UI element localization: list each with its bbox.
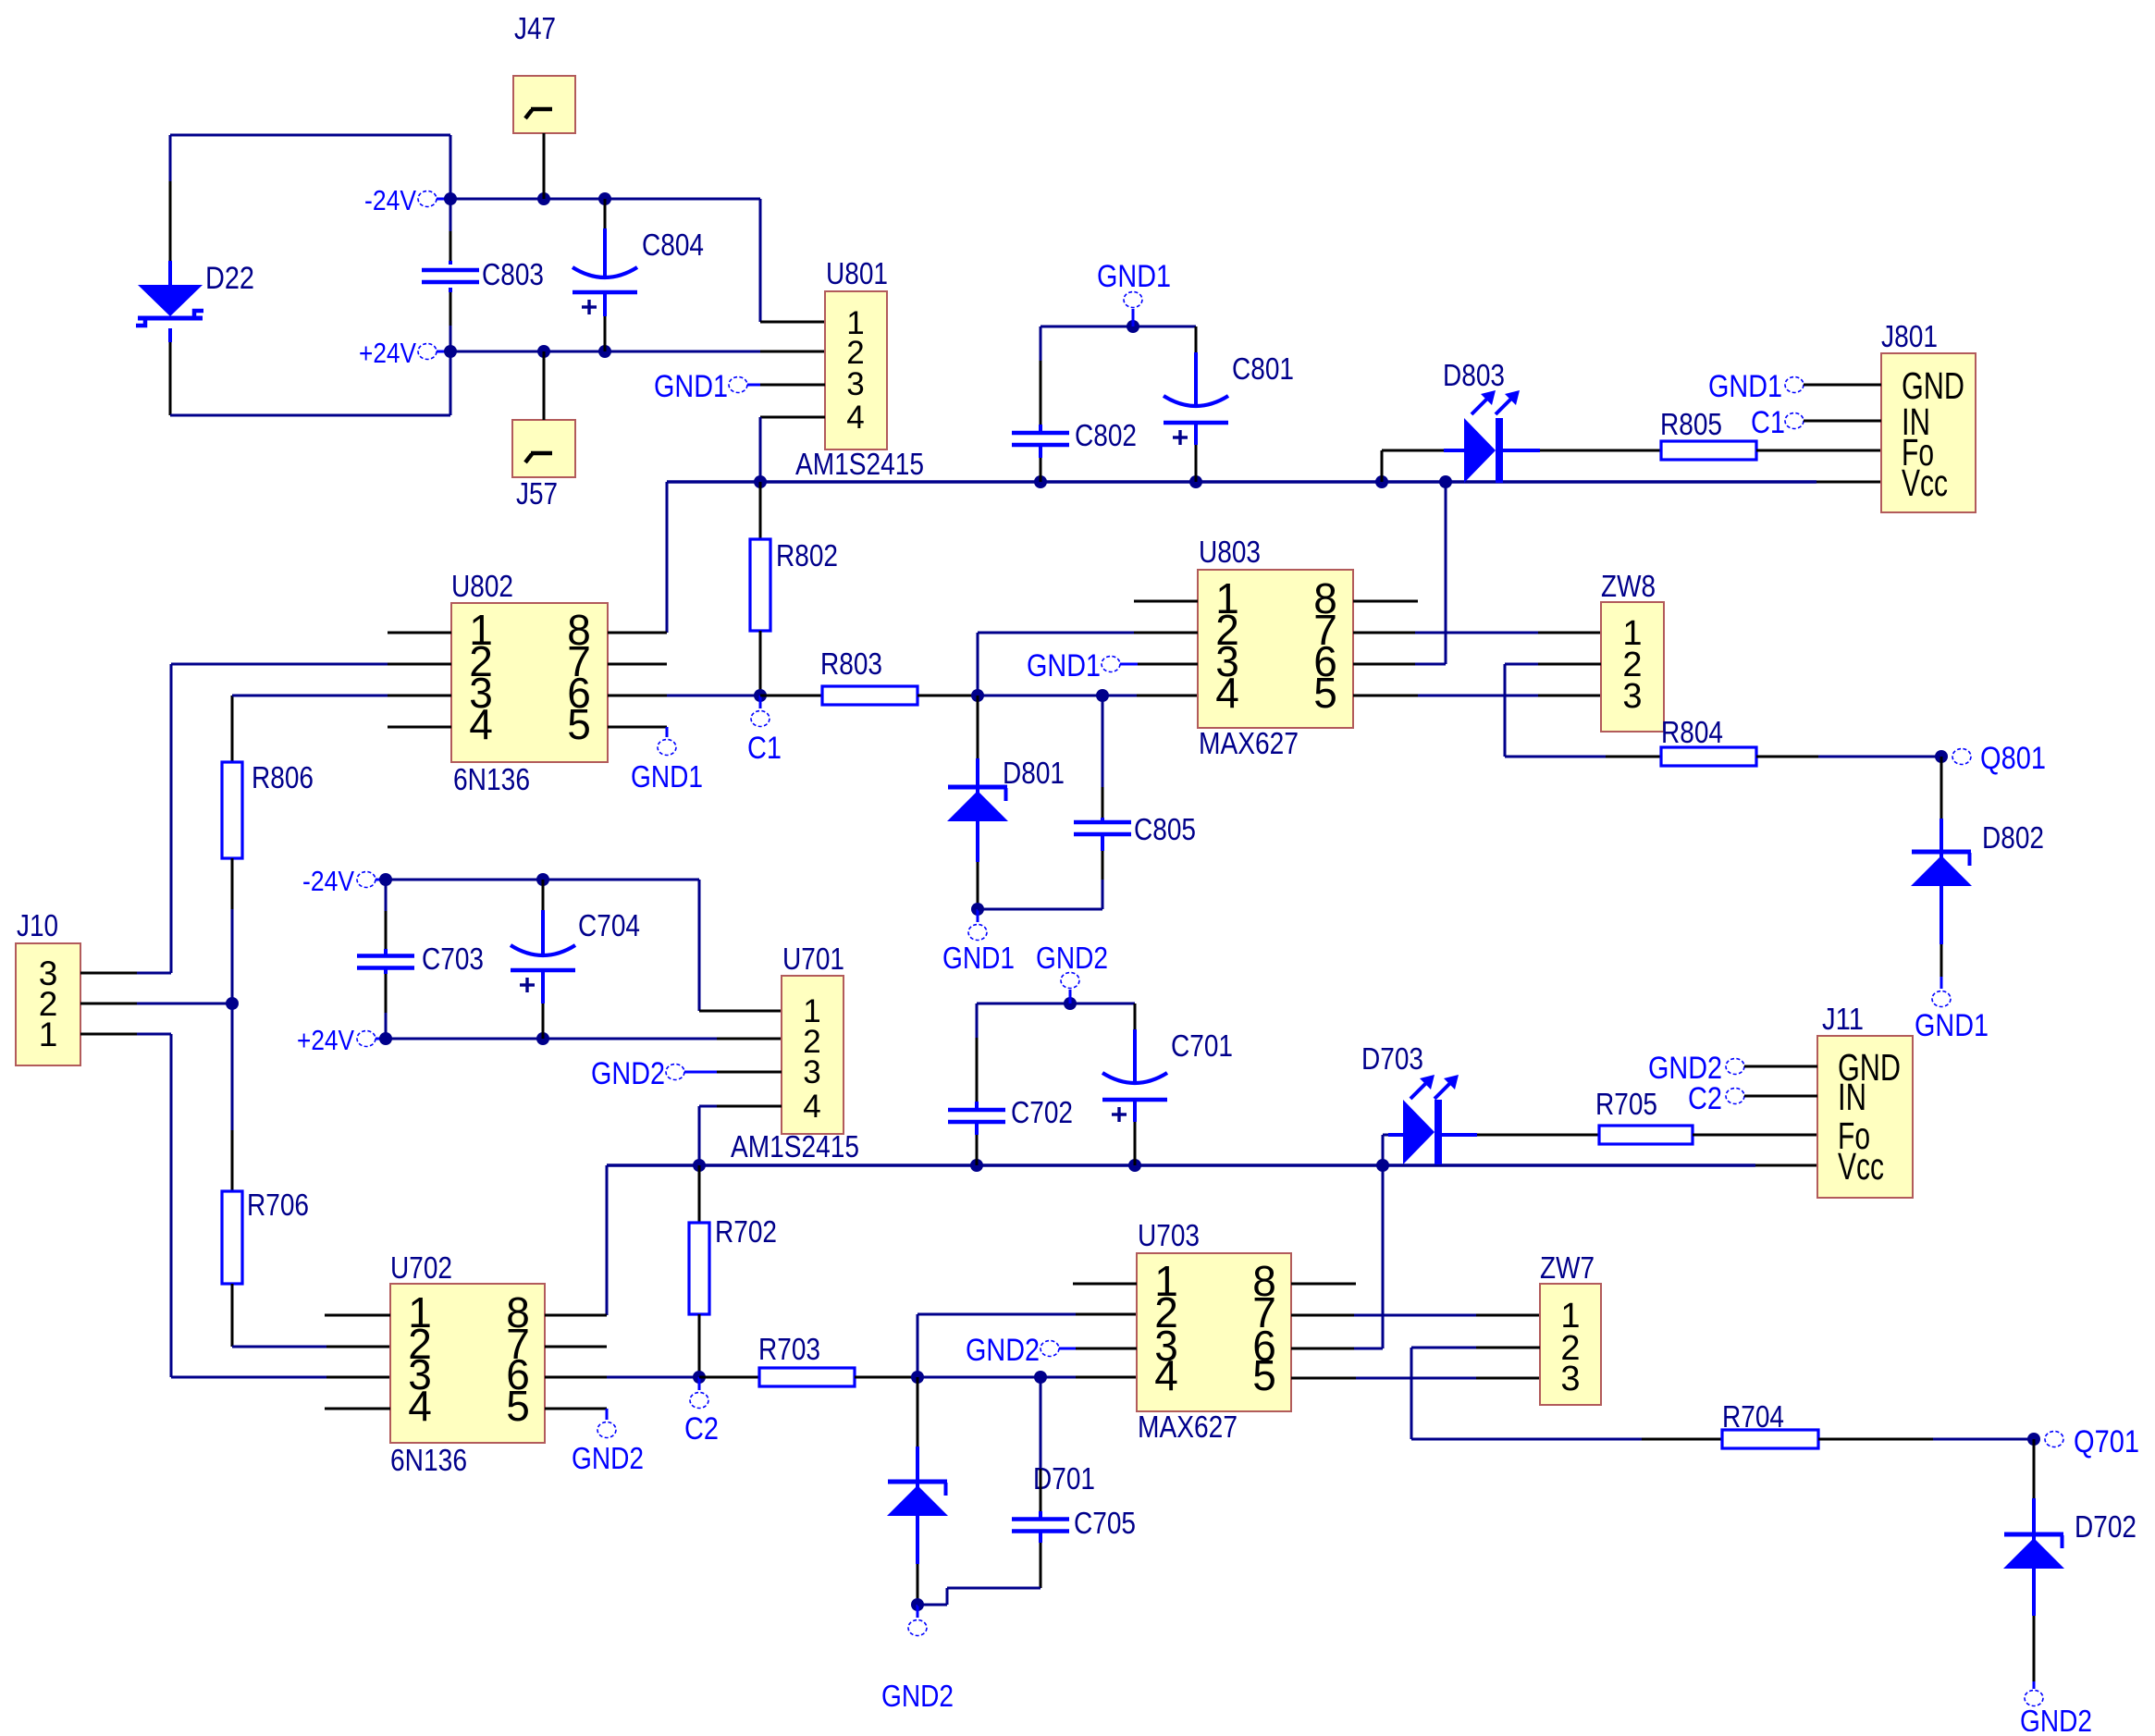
svg-text:U801: U801 [826,256,888,290]
svg-text:GND1: GND1 [1708,369,1782,404]
svg-text:U802: U802 [451,569,513,603]
svg-text:C2: C2 [1688,1081,1722,1116]
svg-text:C2: C2 [684,1411,719,1447]
svg-text:D702: D702 [2075,1509,2137,1544]
svg-text:Vcc: Vcc [1838,1145,1884,1188]
svg-text:ZW8: ZW8 [1601,569,1656,603]
svg-text:1: 1 [39,1016,58,1053]
svg-text:J11: J11 [1822,1002,1864,1036]
svg-text:R702: R702 [715,1214,777,1249]
svg-text:Q801: Q801 [1980,741,2046,776]
svg-text:4: 4 [1215,669,1239,717]
svg-text:R706: R706 [247,1188,309,1222]
svg-text:C801: C801 [1232,351,1294,386]
svg-text:D803: D803 [1443,358,1505,392]
svg-text:R803: R803 [820,646,882,681]
svg-text:6N136: 6N136 [453,762,530,796]
svg-text:D801: D801 [1003,756,1065,790]
svg-text:5: 5 [1313,669,1337,717]
svg-text:GND2: GND2 [881,1679,954,1713]
svg-text:GND1: GND1 [1027,648,1101,683]
svg-text:IN: IN [1838,1076,1866,1118]
svg-text:R804: R804 [1661,715,1723,749]
svg-text:3: 3 [1560,1360,1580,1398]
svg-text:C701: C701 [1171,1028,1233,1063]
svg-text:AM1S2415: AM1S2415 [731,1129,859,1163]
svg-text:4: 4 [846,400,864,436]
svg-text:5: 5 [567,700,591,748]
svg-text:R806: R806 [252,760,314,794]
svg-text:C803: C803 [482,257,544,291]
svg-text:U703: U703 [1138,1218,1200,1252]
svg-text:R705: R705 [1595,1087,1657,1121]
svg-text:GND2: GND2 [1036,941,1108,975]
svg-text:R703: R703 [758,1332,820,1366]
svg-text:U701: U701 [782,942,844,976]
svg-text:GND2: GND2 [591,1056,665,1091]
svg-text:4: 4 [1154,1351,1178,1399]
svg-text:AM1S2415: AM1S2415 [795,447,924,481]
svg-text:C703: C703 [422,942,484,976]
svg-text:C1: C1 [747,731,782,766]
svg-text:C702: C702 [1011,1095,1073,1129]
svg-text:C1: C1 [1751,405,1785,440]
svg-text:J47: J47 [514,11,556,45]
svg-text:4: 4 [408,1382,432,1430]
svg-text:3: 3 [803,1054,820,1090]
svg-text:D701: D701 [1033,1461,1095,1496]
svg-text:Q701: Q701 [2074,1424,2139,1459]
svg-text:3: 3 [846,366,864,402]
svg-text:U702: U702 [390,1250,452,1285]
svg-text:R802: R802 [776,538,838,573]
svg-text:C804: C804 [642,228,704,262]
svg-text:D802: D802 [1982,820,2044,855]
svg-text:ZW7: ZW7 [1540,1250,1595,1285]
svg-text:GND1: GND1 [1097,259,1171,294]
svg-text:4: 4 [803,1089,820,1125]
svg-text:-24V: -24V [364,184,416,216]
svg-text:GND1: GND1 [942,941,1015,975]
svg-text:5: 5 [1252,1351,1276,1399]
svg-text:GND2: GND2 [966,1333,1040,1368]
svg-text:D703: D703 [1361,1041,1423,1076]
svg-text:Vcc: Vcc [1902,462,1948,504]
svg-text:D22: D22 [205,261,254,296]
svg-text:-24V: -24V [302,865,354,897]
svg-text:R704: R704 [1722,1399,1784,1434]
svg-text:GND2: GND2 [2020,1704,2092,1731]
svg-text:5: 5 [506,1382,530,1430]
svg-text:J57: J57 [516,476,558,511]
svg-text:6N136: 6N136 [390,1443,467,1477]
svg-text:GND1: GND1 [1915,1008,1989,1043]
svg-text:GND1: GND1 [631,759,703,794]
svg-text:C802: C802 [1075,418,1137,452]
svg-text:4: 4 [469,700,493,748]
svg-text:C805: C805 [1134,812,1196,846]
svg-text:J801: J801 [1881,319,1938,353]
svg-text:J10: J10 [17,908,58,942]
svg-text:C705: C705 [1074,1506,1136,1540]
svg-text:U803: U803 [1199,535,1261,569]
svg-text:R805: R805 [1660,407,1722,441]
svg-text:GND1: GND1 [654,369,728,404]
svg-text:GND2: GND2 [572,1441,644,1475]
svg-text:MAX627: MAX627 [1138,1410,1238,1444]
svg-text:+24V: +24V [297,1024,354,1056]
svg-text:C704: C704 [578,908,640,942]
svg-text:3: 3 [1622,677,1642,716]
svg-text:MAX627: MAX627 [1199,726,1299,760]
svg-text:+24V: +24V [359,337,416,369]
